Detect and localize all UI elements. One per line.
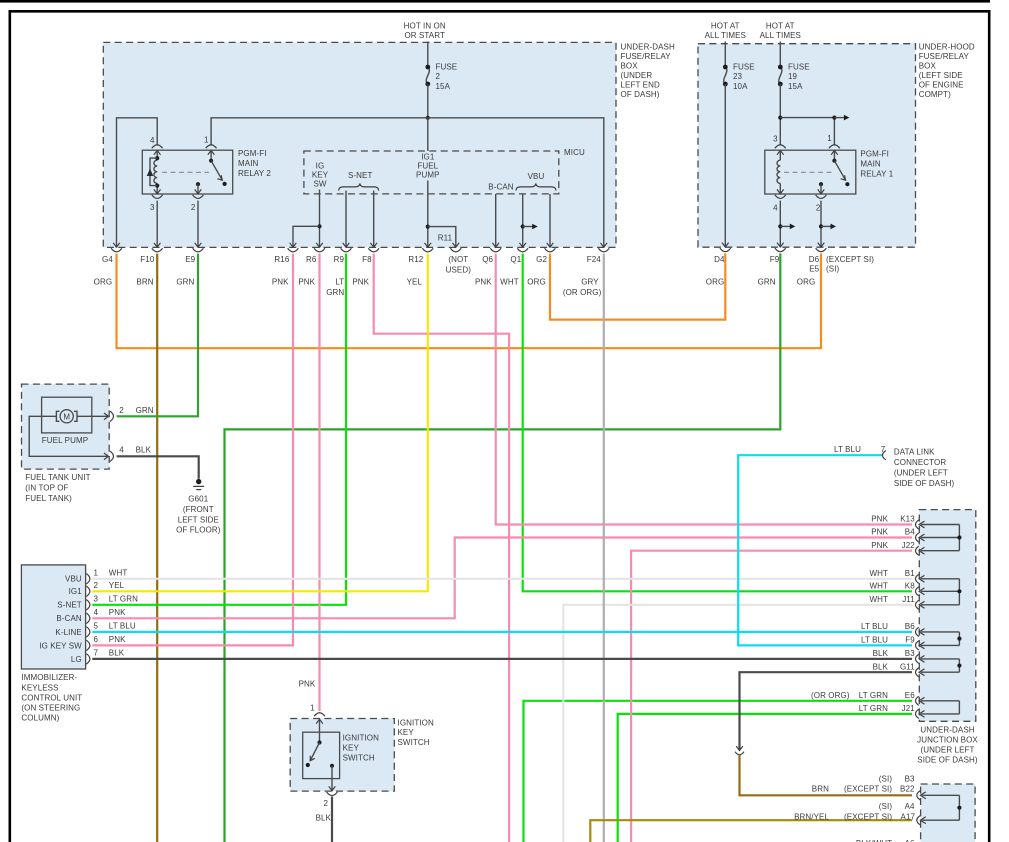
wire Q1 (WHT) to junction K8 bbox=[523, 254, 912, 592]
wire BRN inline connector to junction B22 bbox=[740, 755, 913, 795]
junction box bus bar rows y631.9-645.4 bbox=[921, 631, 959, 633]
svg-text:YEL: YEL bbox=[407, 277, 423, 286]
svg-text:WHT: WHT bbox=[869, 595, 888, 604]
svg-text:IMMOBILIZER-: IMMOBILIZER- bbox=[21, 673, 77, 682]
svg-text:GRY: GRY bbox=[581, 277, 599, 286]
svg-text:KEYLESS: KEYLESS bbox=[21, 683, 58, 692]
wire YEL R12 to immobilizer IG1 pin 2 bbox=[92, 254, 428, 592]
svg-text:PNK: PNK bbox=[109, 635, 126, 644]
svg-text:10A: 10A bbox=[733, 82, 748, 91]
svg-text:KEY: KEY bbox=[312, 170, 329, 179]
wire fuel pump motor to pin 2 bbox=[77, 415, 108, 417]
svg-text:2: 2 bbox=[323, 799, 328, 808]
junction box connector J22 bbox=[916, 546, 919, 555]
svg-text:1: 1 bbox=[310, 704, 315, 713]
svg-text:K13: K13 bbox=[900, 515, 915, 524]
svg-text:G601: G601 bbox=[188, 495, 208, 504]
svg-text:B6: B6 bbox=[905, 622, 915, 631]
svg-text:ORG: ORG bbox=[527, 277, 546, 286]
svg-text:BLK: BLK bbox=[316, 814, 332, 823]
relay 1 pin 1 connector bbox=[829, 145, 840, 149]
svg-text:F10: F10 bbox=[140, 255, 155, 264]
svg-text:GRN: GRN bbox=[136, 406, 154, 415]
wire ORG G2 to D4 bbox=[550, 253, 725, 319]
MICU dashed box bbox=[304, 151, 559, 194]
wire fuse 23 to D4 bbox=[724, 84, 726, 247]
svg-text:UNDER-DASH: UNDER-DASH bbox=[621, 43, 675, 52]
fuse 19 15A bbox=[779, 42, 781, 68]
svg-text:B-CAN: B-CAN bbox=[56, 614, 82, 623]
svg-text:PGM-FI: PGM-FI bbox=[860, 150, 889, 159]
svg-text:LT GRN: LT GRN bbox=[859, 704, 888, 713]
svg-text:J11: J11 bbox=[902, 595, 915, 604]
svg-text:1: 1 bbox=[94, 569, 99, 578]
svg-text:LT BLU: LT BLU bbox=[861, 622, 888, 631]
junction box bus bar rows y578.8-604.8 bbox=[921, 578, 959, 580]
svg-text:LT BLU: LT BLU bbox=[834, 445, 861, 454]
relay 1 pin 2 connector bbox=[819, 182, 823, 186]
wire fuse junction down to MICU IG1 bbox=[427, 118, 429, 151]
svg-text:4: 4 bbox=[150, 136, 155, 145]
svg-text:2: 2 bbox=[816, 203, 821, 212]
svg-text:3: 3 bbox=[94, 595, 99, 604]
wire WHT J11 down off-page bbox=[563, 605, 912, 842]
svg-text:PNK: PNK bbox=[352, 277, 369, 286]
fuel tank unit dashed box bbox=[22, 384, 110, 469]
wire WHT immobilizer VBU pin 1 to junction B1 bbox=[92, 578, 912, 580]
svg-text:E6: E6 bbox=[905, 691, 915, 700]
wire PNK J22 down off-page bbox=[631, 551, 912, 842]
feed wire HOT IN ON OR START to fuse 2 bbox=[427, 42, 429, 68]
under-dash fuse/relay box bbox=[103, 42, 616, 247]
svg-text:IG KEY SW: IG KEY SW bbox=[39, 641, 82, 650]
wire branch to relay 1 pin 1 with off-page arrow bbox=[780, 118, 834, 146]
svg-text:5: 5 bbox=[94, 622, 99, 631]
svg-text:3: 3 bbox=[150, 203, 155, 212]
svg-text:R9: R9 bbox=[334, 255, 345, 264]
svg-text:KEY: KEY bbox=[343, 744, 360, 753]
svg-text:ORG: ORG bbox=[94, 277, 113, 286]
svg-text:F8: F8 bbox=[362, 255, 372, 264]
junction box connector F9 bbox=[916, 641, 919, 650]
junction box 2 connector A17 bbox=[917, 816, 920, 825]
svg-text:(UNDER LEFT: (UNDER LEFT bbox=[894, 468, 948, 477]
svg-text:YEL: YEL bbox=[109, 581, 125, 590]
wire MICU IG1 FUEL PUMP to R12 and R11 bbox=[427, 181, 429, 248]
junction box connector B1 bbox=[916, 574, 919, 583]
svg-text:15A: 15A bbox=[436, 82, 451, 91]
wire PNK R16 to immobilizer IG KEY SW pin 6 bbox=[92, 254, 293, 646]
svg-text:(OR ORG): (OR ORG) bbox=[563, 288, 602, 297]
svg-text:BLK: BLK bbox=[136, 445, 152, 454]
svg-text:FUSE: FUSE bbox=[788, 62, 810, 71]
svg-text:B4: B4 bbox=[905, 528, 915, 537]
wire LT GRN R9 to immobilizer S-NET pin 3 bbox=[92, 254, 346, 605]
wire PNK F8 S-NET down off-page bbox=[374, 254, 509, 842]
svg-text:A4: A4 bbox=[905, 802, 915, 811]
wire relay 1 pin 2 to D6/E5 with off-page arrow bbox=[820, 201, 822, 247]
svg-text:15A: 15A bbox=[788, 82, 803, 91]
junction box connector E6 bbox=[916, 696, 919, 705]
immobilizer pin 6 IG KEY SW bbox=[86, 640, 90, 650]
svg-text:7: 7 bbox=[94, 649, 99, 658]
svg-text:RELAY 2: RELAY 2 bbox=[238, 169, 271, 178]
svg-text:R6: R6 bbox=[306, 255, 317, 264]
wire LT GRN E6 down off-page bbox=[524, 701, 913, 842]
svg-text:4: 4 bbox=[119, 445, 124, 454]
svg-text:GRN: GRN bbox=[758, 277, 776, 286]
svg-text:GRN: GRN bbox=[326, 288, 344, 297]
wire MICU B-CAN to Q6 bbox=[495, 194, 497, 247]
wire LT BLU data link connector pin 7 to junction F9 bbox=[738, 455, 912, 645]
connector D4 bbox=[722, 243, 729, 247]
svg-text:1: 1 bbox=[827, 134, 832, 143]
relay 1 coil bbox=[779, 150, 781, 160]
svg-text:(UNDER LEFT: (UNDER LEFT bbox=[921, 746, 975, 755]
connector F9 bbox=[777, 243, 784, 247]
svg-text:B-CAN: B-CAN bbox=[488, 182, 514, 191]
svg-text:A17: A17 bbox=[901, 812, 916, 821]
connector F8 bbox=[370, 243, 377, 247]
immobilizer pin 7 LG bbox=[86, 654, 90, 664]
svg-text:FUSE/RELAY: FUSE/RELAY bbox=[621, 52, 672, 61]
junction box bus bar rows y700.8-713.9 bbox=[921, 700, 959, 702]
wire BLK junction G11 to inline connector bbox=[740, 672, 913, 750]
svg-text:ALL TIMES: ALL TIMES bbox=[705, 31, 746, 40]
data link connector pin 7 bbox=[883, 451, 886, 460]
wire fuse junction to F24 bbox=[428, 118, 604, 247]
svg-text:G11: G11 bbox=[900, 662, 915, 671]
svg-text:RELAY 1: RELAY 1 bbox=[860, 169, 893, 178]
svg-text:BOX: BOX bbox=[621, 62, 639, 71]
connector Q1 bbox=[519, 243, 526, 247]
svg-text:(SI): (SI) bbox=[826, 265, 840, 274]
svg-text:WHT: WHT bbox=[109, 569, 128, 578]
svg-text:FUSE: FUSE bbox=[436, 62, 458, 71]
svg-text:4: 4 bbox=[94, 608, 99, 617]
svg-text:ORG: ORG bbox=[797, 277, 816, 286]
wire relay 1 pin 4 to F9 with off-page arrow bbox=[779, 201, 781, 247]
svg-text:F9: F9 bbox=[770, 255, 780, 264]
svg-text:4: 4 bbox=[773, 203, 778, 212]
svg-text:2: 2 bbox=[436, 72, 441, 81]
svg-text:OF ENGINE: OF ENGINE bbox=[919, 81, 964, 90]
svg-text:MAIN: MAIN bbox=[860, 159, 881, 168]
immobilizer pin 2 IG1 bbox=[86, 586, 90, 596]
connector R12 bbox=[425, 243, 432, 247]
junction box bus bar rows y524.5-550.7 bbox=[921, 524, 959, 526]
svg-text:BLK: BLK bbox=[873, 662, 889, 671]
svg-text:HOT AT: HOT AT bbox=[766, 21, 795, 30]
relay 2 diode branch bbox=[150, 158, 157, 186]
wire BLK fuel pump pin 4 to ground G601 bbox=[117, 456, 199, 479]
svg-text:IG1: IG1 bbox=[421, 152, 435, 161]
svg-text:7: 7 bbox=[881, 445, 886, 454]
svg-text:PNK: PNK bbox=[871, 528, 888, 537]
immobilizer pin 3 S-NET bbox=[86, 600, 90, 610]
svg-text:D6: D6 bbox=[809, 255, 820, 264]
svg-text:SW: SW bbox=[313, 179, 326, 188]
wire BLK immobilizer LG pin 7 to junction B3 bbox=[92, 658, 912, 660]
svg-text:FUEL PUMP: FUEL PUMP bbox=[42, 436, 88, 445]
svg-text:(SI): (SI) bbox=[879, 774, 893, 783]
svg-text:R12: R12 bbox=[408, 255, 423, 264]
svg-text:K-LINE: K-LINE bbox=[55, 628, 81, 637]
svg-text:UNDER-HOOD: UNDER-HOOD bbox=[919, 43, 975, 52]
connector R11 (NOT USED) bbox=[453, 243, 460, 247]
immobilizer pin 1 VBU bbox=[86, 574, 90, 584]
connector R6 bbox=[316, 243, 323, 247]
ignition key switch contacts bbox=[319, 719, 321, 743]
wire GRN E9 to fuel pump pin 2 bbox=[117, 254, 198, 417]
svg-text:SIDE OF DASH): SIDE OF DASH) bbox=[894, 479, 955, 488]
fuse 2 15A bbox=[426, 67, 429, 84]
junction box bus bar rows y658.9-672.2 bbox=[921, 658, 959, 660]
svg-text:SWITCH: SWITCH bbox=[343, 753, 375, 762]
svg-text:SWITCH: SWITCH bbox=[398, 738, 430, 747]
svg-text:Q1: Q1 bbox=[510, 255, 521, 264]
wire BRN/YEL from off-page to junction A17 bbox=[590, 820, 912, 842]
junction box connector B4 bbox=[916, 533, 919, 542]
inline connector on G11/BRN wire bbox=[736, 746, 743, 750]
wire relay 2 pin 3 to F10 bbox=[156, 201, 158, 248]
svg-text:LEFT SIDE: LEFT SIDE bbox=[178, 515, 219, 524]
svg-text:FUEL TANK): FUEL TANK) bbox=[25, 494, 72, 503]
svg-text:USED): USED) bbox=[446, 265, 472, 274]
connector R9 bbox=[343, 243, 350, 247]
svg-text:IGNITION: IGNITION bbox=[398, 718, 434, 727]
svg-text:PNK: PNK bbox=[871, 541, 888, 550]
svg-text:R16: R16 bbox=[274, 255, 289, 264]
relay 1 mechanical dashed link bbox=[784, 171, 832, 173]
junction box connector J11 bbox=[916, 600, 919, 609]
svg-text:K8: K8 bbox=[905, 582, 915, 591]
wire ORG G4 to D6/E5 bbox=[117, 253, 822, 348]
relay 1 switch bbox=[833, 150, 835, 161]
svg-text:J22: J22 bbox=[902, 541, 916, 550]
junction box connector K13 bbox=[916, 520, 919, 529]
relay 2 mechanical dashed link bbox=[162, 171, 209, 173]
svg-text:LT: LT bbox=[335, 277, 344, 286]
svg-text:HOT IN ON: HOT IN ON bbox=[404, 21, 446, 30]
relay 1 pin 4 connector bbox=[777, 189, 784, 193]
svg-text:(FRONT: (FRONT bbox=[183, 505, 214, 514]
svg-text:LEFT END: LEFT END bbox=[621, 81, 660, 90]
svg-text:BRN: BRN bbox=[136, 277, 153, 286]
connector Q6 bbox=[492, 243, 499, 247]
svg-text:M: M bbox=[63, 412, 70, 421]
svg-text:BRN: BRN bbox=[812, 785, 829, 794]
svg-text:COMPT): COMPT) bbox=[919, 90, 951, 99]
svg-text:ORG: ORG bbox=[706, 277, 725, 286]
connector R16 bbox=[290, 243, 297, 247]
svg-text:DATA LINK: DATA LINK bbox=[894, 448, 935, 457]
under-dash junction box 1 bbox=[919, 510, 976, 722]
svg-text:CONTROL UNIT: CONTROL UNIT bbox=[21, 693, 82, 702]
svg-text:IG1: IG1 bbox=[69, 587, 83, 596]
svg-text:BRN/YEL: BRN/YEL bbox=[794, 812, 829, 821]
wire MICU S-NET to F8 bbox=[373, 191, 375, 248]
svg-text:FUEL: FUEL bbox=[417, 161, 438, 170]
svg-text:23: 23 bbox=[733, 72, 743, 81]
svg-text:F24: F24 bbox=[587, 255, 602, 264]
relay 2 pin 1 connector bbox=[206, 145, 217, 149]
svg-text:LG: LG bbox=[71, 655, 82, 664]
under-hood fuse/relay box bbox=[698, 44, 916, 248]
wire PNK R6 to ignition key switch pin 1 bbox=[318, 254, 320, 711]
svg-text:(LEFT SIDE: (LEFT SIDE bbox=[919, 71, 963, 80]
wire GRY F24 down off-page bbox=[603, 254, 605, 842]
svg-text:FUEL TANK UNIT: FUEL TANK UNIT bbox=[25, 473, 90, 482]
svg-text:HOT AT: HOT AT bbox=[711, 21, 740, 30]
ignition key switch dashed box bbox=[290, 719, 394, 792]
svg-text:BLK: BLK bbox=[109, 649, 125, 658]
svg-text:1: 1 bbox=[204, 136, 209, 145]
wire BLK ignition key switch pin 2 down off-page bbox=[331, 797, 333, 842]
relay 2 pin 2 connector bbox=[196, 182, 200, 186]
ground G601 bbox=[196, 479, 201, 484]
svg-text:PGM-FI: PGM-FI bbox=[238, 149, 267, 158]
wire fuse 19 to relay 1 pin 3 bbox=[779, 84, 781, 146]
junction box connector G11 bbox=[916, 668, 919, 677]
svg-text:WHT: WHT bbox=[869, 569, 888, 578]
svg-text:(EXCEPT SI): (EXCEPT SI) bbox=[844, 812, 892, 821]
fuel pump motor symbol bbox=[60, 410, 73, 423]
svg-text:PNK: PNK bbox=[272, 277, 289, 286]
svg-text:F9: F9 bbox=[905, 636, 915, 645]
svg-text:B1: B1 bbox=[905, 569, 915, 578]
connector G2 bbox=[547, 243, 554, 247]
svg-text:KEY: KEY bbox=[398, 728, 415, 737]
svg-text:MICU: MICU bbox=[564, 148, 585, 157]
under-dash junction box 2 (clipped at page bottom) bbox=[921, 784, 976, 842]
immobilizer pin 4 B-CAN bbox=[86, 613, 90, 623]
svg-text:J21: J21 bbox=[902, 704, 916, 713]
wire PNK Q6 B-CAN to junction K13 bbox=[496, 254, 912, 525]
svg-text:VBU: VBU bbox=[65, 575, 82, 584]
wire fuse 2 junction node bbox=[427, 84, 429, 118]
fuse 23 10A bbox=[724, 42, 726, 68]
wire fuel pump motor to pin 4 bbox=[29, 416, 107, 456]
svg-text:D4: D4 bbox=[714, 255, 725, 264]
svg-text:UNDER-DASH: UNDER-DASH bbox=[920, 726, 974, 735]
svg-text:G2: G2 bbox=[536, 255, 547, 264]
svg-text:FUSE/RELAY: FUSE/RELAY bbox=[919, 52, 970, 61]
wire MICU IG KEY SW to R16 and R6 bbox=[319, 190, 321, 248]
junction box 2 bus bar bbox=[922, 794, 959, 796]
svg-text:3: 3 bbox=[773, 135, 778, 144]
connector E9 bbox=[195, 243, 202, 247]
svg-text:FUSE: FUSE bbox=[733, 62, 755, 71]
connector F10 bbox=[154, 243, 161, 247]
wire relay 2 pin 2 to E9 bbox=[197, 201, 199, 248]
svg-text:(EXCEPT SI): (EXCEPT SI) bbox=[844, 785, 892, 794]
connector F24 bbox=[601, 243, 608, 247]
junction box connector K8 bbox=[916, 587, 919, 596]
svg-text:B3: B3 bbox=[905, 774, 915, 783]
svg-text:LT BLU: LT BLU bbox=[861, 636, 888, 645]
fuel pump inner box bbox=[42, 397, 92, 433]
immobilizer pin 5 K-LINE bbox=[86, 627, 90, 637]
svg-text:PNK: PNK bbox=[475, 277, 492, 286]
svg-text:IG: IG bbox=[316, 161, 325, 170]
svg-text:Q6: Q6 bbox=[482, 255, 493, 264]
svg-text:ALL TIMES: ALL TIMES bbox=[760, 31, 801, 40]
junction box connector B3 bbox=[916, 654, 919, 663]
svg-text:BOX: BOX bbox=[919, 62, 937, 71]
svg-text:WHT: WHT bbox=[500, 277, 519, 286]
svg-text:SIDE OF DASH): SIDE OF DASH) bbox=[917, 756, 978, 765]
relay 2 pin 4 connector bbox=[152, 145, 163, 149]
relay 2 coil bbox=[156, 150, 158, 160]
wire GRN F9 down-left off-page bbox=[225, 253, 781, 842]
svg-text:(SI): (SI) bbox=[879, 802, 893, 811]
wire LT GRN J21 down off-page bbox=[618, 714, 912, 842]
wire MICU VBU to Q1 with branch arrow bbox=[522, 194, 524, 247]
svg-text:JUNCTION BOX: JUNCTION BOX bbox=[917, 736, 978, 745]
svg-text:OR START: OR START bbox=[404, 31, 445, 40]
svg-text:E5: E5 bbox=[809, 265, 819, 274]
relay 1 pin 3 connector bbox=[775, 145, 786, 149]
svg-text:2: 2 bbox=[94, 581, 99, 590]
svg-text:(ON STEERING: (ON STEERING bbox=[21, 703, 80, 712]
relay 2 box bbox=[142, 150, 232, 194]
svg-text:OF FLOOR): OF FLOOR) bbox=[176, 526, 221, 535]
wire BRN F10 down off-page bbox=[156, 254, 158, 842]
svg-text:PUMP: PUMP bbox=[416, 170, 440, 179]
svg-text:MAIN: MAIN bbox=[238, 159, 259, 168]
page top border bar bbox=[0, 0, 990, 3]
svg-text:6: 6 bbox=[94, 635, 99, 644]
svg-text:VBU: VBU bbox=[528, 172, 545, 181]
svg-text:LT BLU: LT BLU bbox=[109, 622, 136, 631]
svg-text:GRN: GRN bbox=[176, 277, 194, 286]
svg-text:B3: B3 bbox=[905, 649, 915, 658]
wire MICU VBU to G2 bbox=[549, 194, 551, 247]
svg-text:(IN TOP OF: (IN TOP OF bbox=[25, 484, 68, 493]
svg-text:19: 19 bbox=[788, 72, 798, 81]
svg-text:(UNDER: (UNDER bbox=[621, 71, 653, 80]
ignition key switch inner box bbox=[303, 732, 340, 778]
relay 1 box bbox=[765, 150, 856, 194]
wire G4 riser and jog to relay 2 pin 4 bbox=[117, 118, 158, 247]
svg-text:LT GRN: LT GRN bbox=[859, 691, 888, 700]
svg-text:LT GRN: LT GRN bbox=[109, 595, 138, 604]
wire LT BLU immobilizer K-LINE pin 5 to junction B6 bbox=[92, 631, 912, 633]
svg-text:B22: B22 bbox=[900, 785, 915, 794]
immobilizer-keyless control unit box bbox=[21, 565, 85, 669]
svg-text:PNK: PNK bbox=[109, 608, 126, 617]
junction box connector J21 bbox=[916, 709, 919, 718]
svg-text:(NOT: (NOT bbox=[448, 255, 468, 264]
svg-text:BLK: BLK bbox=[873, 649, 889, 658]
svg-text:R11: R11 bbox=[438, 233, 453, 242]
svg-text:G4: G4 bbox=[102, 255, 113, 264]
connector G4 bbox=[113, 243, 120, 247]
svg-text:PNK: PNK bbox=[871, 515, 888, 524]
svg-text:PNK: PNK bbox=[298, 277, 315, 286]
relay 2 switch bbox=[210, 150, 212, 161]
svg-text:S-NET: S-NET bbox=[348, 171, 373, 180]
svg-text:OF DASH): OF DASH) bbox=[621, 90, 660, 99]
svg-text:S-NET: S-NET bbox=[57, 601, 82, 610]
junction box connector B6 bbox=[916, 627, 919, 636]
svg-text:(EXCEPT SI): (EXCEPT SI) bbox=[826, 255, 874, 264]
svg-text:COLUMN): COLUMN) bbox=[21, 713, 59, 722]
relay 2 pin 3 connector bbox=[154, 189, 161, 193]
svg-text:2: 2 bbox=[119, 406, 124, 415]
svg-text:IGNITION: IGNITION bbox=[343, 734, 379, 743]
